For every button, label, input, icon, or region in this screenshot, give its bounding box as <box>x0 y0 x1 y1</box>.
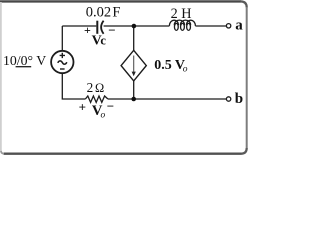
svg-text:2 H: 2 H <box>171 6 192 22</box>
svg-text:−: − <box>107 99 114 114</box>
svg-text:Ω: Ω <box>95 81 104 95</box>
svg-text:a: a <box>235 17 243 33</box>
svg-text:−: − <box>108 23 115 38</box>
svg-text:o: o <box>183 65 188 75</box>
svg-text:0.02 F: 0.02 F <box>86 5 121 21</box>
svg-text:b: b <box>235 91 243 107</box>
svg-text:o: o <box>101 111 106 121</box>
svg-text:0.5 V: 0.5 V <box>154 58 185 73</box>
svg-text:+: + <box>84 23 91 37</box>
svg-text:10/0° V: 10/0° V <box>3 53 46 68</box>
svg-text:c: c <box>100 33 106 47</box>
svg-text:2: 2 <box>87 80 94 95</box>
svg-text:+: + <box>79 99 86 114</box>
